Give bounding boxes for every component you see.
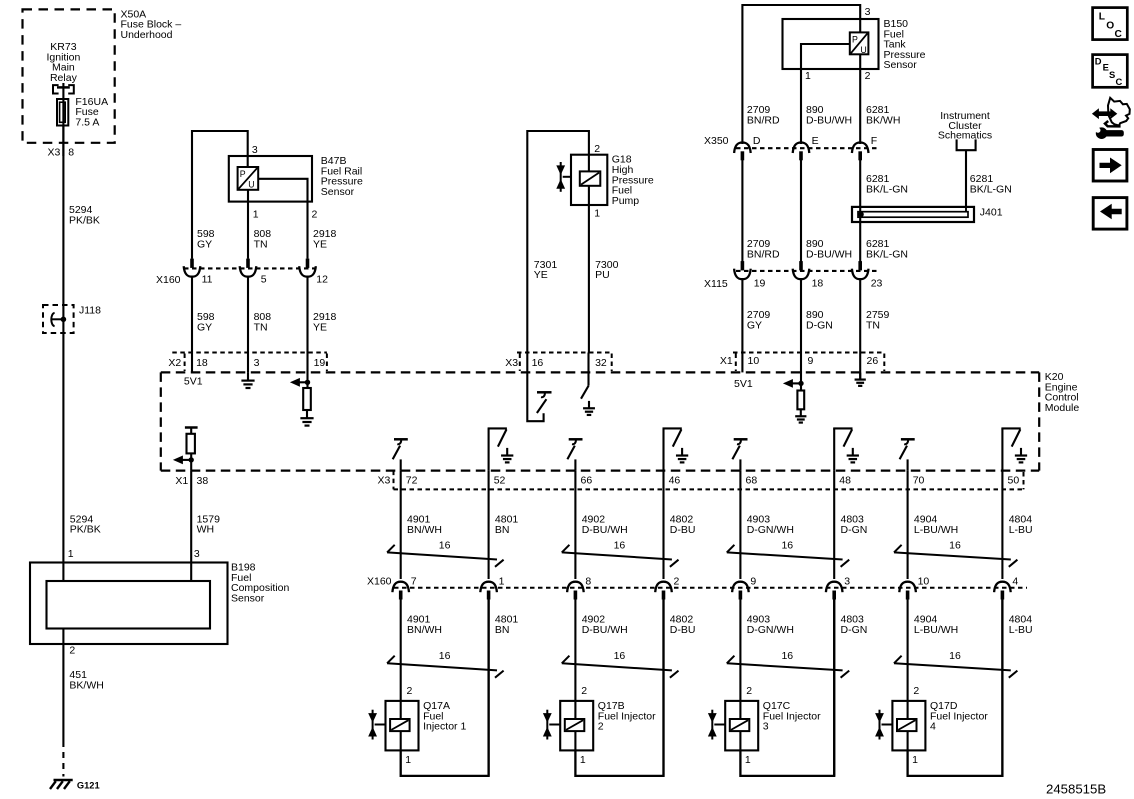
wire 598 GY lower <box>191 277 193 353</box>
svg-text:D-GN/WH: D-GN/WH <box>747 524 794 536</box>
signal arrow X1-9 <box>783 379 804 388</box>
svg-text:1: 1 <box>805 70 811 82</box>
wire 4804 L-BU upper <box>1001 471 1003 579</box>
svg-text:19: 19 <box>314 357 326 369</box>
connector X160 pin 11 terminal <box>184 259 201 277</box>
svg-text:16: 16 <box>614 540 626 552</box>
wire 4801 BN lower <box>488 599 490 776</box>
svg-text:X1: X1 <box>175 475 188 487</box>
svg-text:72: 72 <box>406 475 418 487</box>
injector Q17C wire through box <box>739 701 741 751</box>
splice J118 <box>43 305 74 333</box>
connector X350 dashed line <box>736 147 877 149</box>
svg-text:23: 23 <box>871 278 883 290</box>
svg-text:PK/BK: PK/BK <box>70 524 101 536</box>
ground ECM X1-9 resistor <box>795 409 806 422</box>
wire injector Q17A low side loop <box>401 599 489 776</box>
svg-text:19: 19 <box>754 278 766 290</box>
resistor ECM X2-19 <box>303 388 311 410</box>
svg-text:12: 12 <box>316 273 328 285</box>
svg-text:Fuel Injector: Fuel Injector <box>598 710 656 722</box>
pump G18 fuel spray symbol <box>556 162 571 192</box>
injector Q17A solenoid element <box>390 719 410 731</box>
wire X1-9 stub <box>800 353 802 391</box>
svg-text:TN: TN <box>254 238 268 250</box>
svg-text:U: U <box>248 180 254 190</box>
svg-text:2: 2 <box>598 721 604 733</box>
twisted pair symbol lower 4901/4801 <box>387 656 504 678</box>
wire 4901 BN/WH lower <box>400 599 402 701</box>
svg-text:Sensor: Sensor <box>321 186 355 198</box>
wire 890 D-BU/WH middle <box>800 160 802 263</box>
injector Q17B box <box>560 701 593 751</box>
wire 4903 D-GN/WH upper <box>739 471 741 579</box>
wire ECM driver to pin 68 <box>739 459 741 470</box>
svg-text:3: 3 <box>194 548 200 560</box>
svg-text:X3: X3 <box>505 357 518 369</box>
splice pack J401 <box>852 207 974 222</box>
svg-text:G121: G121 <box>77 780 100 790</box>
svg-text:D: D <box>753 135 761 147</box>
wire instrument cluster to J401 <box>965 150 967 207</box>
svg-text:BN/RD: BN/RD <box>747 114 780 126</box>
connector X160 injector row dashed line <box>394 587 1027 589</box>
wire 4804 L-BU lower <box>1001 599 1003 776</box>
svg-text:O: O <box>1106 20 1114 31</box>
svg-text:66: 66 <box>581 475 593 487</box>
connector X160 pin 3 terminal <box>826 582 843 600</box>
connector X3 pump box <box>517 353 612 372</box>
connector X160 pin 2 terminal <box>655 582 672 600</box>
svg-text:4: 4 <box>930 721 936 733</box>
icon DESC button <box>1093 55 1128 88</box>
svg-text:D-BU/WH: D-BU/WH <box>806 114 852 126</box>
svg-text:7.5 A: 7.5 A <box>75 117 99 129</box>
svg-text:2: 2 <box>581 685 587 697</box>
svg-text:P: P <box>852 35 858 45</box>
wire 5294 PK/BK lower segment <box>62 333 64 563</box>
switch blade X3-32 <box>581 386 589 399</box>
svg-text:10: 10 <box>918 576 930 588</box>
svg-text:16: 16 <box>439 540 451 552</box>
svg-text:16: 16 <box>949 540 961 552</box>
svg-text:BN: BN <box>495 624 510 636</box>
svg-text:1: 1 <box>253 209 259 221</box>
wire X1-38 internal <box>190 453 192 470</box>
icon next arrow button <box>1093 150 1127 182</box>
svg-text:7: 7 <box>411 576 417 588</box>
connector X115 dashed line <box>736 270 877 272</box>
svg-text:5V1: 5V1 <box>734 378 753 390</box>
svg-text:X160: X160 <box>156 274 181 286</box>
wire 4802 D-BU upper <box>662 471 664 579</box>
sensor B150 Fuel Tank Pressure Sensor box <box>783 19 879 69</box>
svg-text:2: 2 <box>312 209 318 221</box>
fuse block X50A dashed outline <box>23 9 115 142</box>
svg-text:Sensor: Sensor <box>884 59 918 71</box>
svg-text:BN/RD: BN/RD <box>747 248 780 260</box>
connector X2 box <box>172 353 327 372</box>
ground ECM X2-3 <box>241 372 254 388</box>
svg-text:5: 5 <box>261 273 267 285</box>
svg-text:X3: X3 <box>378 475 391 487</box>
svg-text:3: 3 <box>844 576 850 588</box>
svg-text:1: 1 <box>405 754 411 766</box>
injector Q17A box <box>386 701 419 751</box>
resistor ECM X1-9 <box>797 391 804 410</box>
svg-text:BK/L-GN: BK/L-GN <box>866 248 908 260</box>
sensor B47B Fuel Rail Pressure Sensor box <box>229 156 312 202</box>
svg-text:TN: TN <box>866 319 880 331</box>
injector Q17A fuel spray symbol <box>368 710 385 740</box>
wire 5294 PK/BK upper segment <box>62 156 64 333</box>
svg-text:PK/BK: PK/BK <box>69 214 100 226</box>
wire 808 TN lower <box>247 277 249 353</box>
svg-text:3: 3 <box>252 144 258 156</box>
svg-text:4: 4 <box>1012 576 1018 588</box>
wire ECM driver to pin 72 <box>400 459 402 470</box>
connector X160 pin 5 terminal <box>240 259 257 277</box>
wire B47B pin1 <box>247 190 249 259</box>
svg-text:L: L <box>1099 11 1105 22</box>
switch ECM injector return 50 with ground <box>1001 428 1027 470</box>
svg-text:Injector 1: Injector 1 <box>423 721 466 733</box>
svg-text:D-GN: D-GN <box>841 524 868 536</box>
fuse F16UA <box>57 99 68 126</box>
wire 4901 BN/WH upper <box>400 471 402 579</box>
twisted pair symbol lower 4903/4803 <box>727 656 849 678</box>
ground ECM X2-19 resistor <box>300 410 313 426</box>
sensor B198 Fuel Composition Sensor box <box>30 563 228 645</box>
svg-text:X3: X3 <box>48 146 61 158</box>
svg-text:38: 38 <box>197 475 209 487</box>
svg-text:Relay: Relay <box>50 72 78 84</box>
svg-text:D-GN: D-GN <box>841 624 868 636</box>
svg-text:D-GN: D-GN <box>806 319 833 331</box>
icon LOC button <box>1093 8 1128 40</box>
svg-text:32: 32 <box>595 357 607 369</box>
sensor B47B P/U element <box>238 167 259 190</box>
twisted pair symbol lower 4902/4802 <box>562 656 679 678</box>
svg-text:Module: Module <box>1045 402 1080 414</box>
svg-text:70: 70 <box>913 475 925 487</box>
svg-text:Fuel Injector: Fuel Injector <box>763 710 821 722</box>
svg-text:D-GN/WH: D-GN/WH <box>747 624 794 636</box>
icon back arrow button <box>1093 198 1127 230</box>
svg-text:E: E <box>1103 62 1109 73</box>
injector Q17D wire through box <box>907 701 909 751</box>
icon hand with double arrow and wrench <box>1092 98 1130 139</box>
svg-text:3: 3 <box>254 357 260 369</box>
svg-text:16: 16 <box>439 650 451 662</box>
connector X3 injector row dashed line <box>394 471 1024 490</box>
connector X115 pin 18 terminal <box>793 261 810 279</box>
wire 4904 L-BU/WH upper <box>907 471 909 579</box>
svg-text:YE: YE <box>313 238 327 250</box>
svg-text:L-BU/WH: L-BU/WH <box>914 524 958 536</box>
switch ECM injector driver 72 <box>393 439 408 459</box>
connector X1 box <box>733 353 884 372</box>
injector Q17A wire through box <box>400 701 402 751</box>
wire relay to fuse <box>62 87 64 156</box>
svg-text:2458515B: 2458515B <box>1046 782 1106 797</box>
svg-text:YE: YE <box>534 269 548 281</box>
svg-text:D-BU: D-BU <box>670 624 696 636</box>
wire B150 pin3 loop <box>742 5 860 144</box>
connector X160 pin 4 terminal <box>994 582 1011 600</box>
svg-text:3: 3 <box>763 721 769 733</box>
switch ECM injector return 52 with ground <box>488 428 514 470</box>
connector X350 pin D terminal <box>734 143 751 161</box>
twisted pair symbol upper 4902/4802 <box>562 545 679 567</box>
svg-text:2: 2 <box>746 685 752 697</box>
pump G18 solenoid element <box>580 171 601 185</box>
injector Q17C fuel spray symbol <box>708 710 725 740</box>
svg-text:16: 16 <box>781 540 793 552</box>
wire 2918 YE lower <box>306 277 308 353</box>
connector X160 pin 8 terminal <box>567 582 584 600</box>
wire injector Q17B low side loop <box>575 599 663 776</box>
connector X115 pin 19 terminal <box>734 261 751 279</box>
wire 4801 BN upper <box>488 471 490 579</box>
connector X1 pin 38 labels <box>175 475 208 487</box>
connector X160 pin 1 terminal <box>480 582 497 600</box>
wire X1-10 stub <box>741 353 743 373</box>
svg-text:1: 1 <box>68 548 74 560</box>
svg-text:5V1: 5V1 <box>184 376 203 388</box>
svg-text:BN/WH: BN/WH <box>407 624 442 636</box>
svg-text:BN/WH: BN/WH <box>407 524 442 536</box>
sensor B198 pin1 internal wire <box>62 563 64 582</box>
svg-text:10: 10 <box>748 355 760 367</box>
svg-text:GY: GY <box>747 319 762 331</box>
svg-text:11: 11 <box>202 273 213 285</box>
resistor ECM X1-38 with supply bar <box>185 428 198 454</box>
injector Q17D box <box>892 701 925 751</box>
wire X3-32 stub <box>587 353 589 386</box>
wire G18 pin1 / 7300 PU <box>588 205 590 353</box>
twisted pair symbol upper 4901/4801 <box>387 545 504 567</box>
switch ECM fuel pump driver <box>537 392 552 413</box>
connector X3 pin 8 labels <box>48 146 75 158</box>
injector Q17C solenoid element <box>730 719 750 731</box>
svg-text:Pump: Pump <box>612 195 640 207</box>
wire X1-26 stub <box>859 353 861 380</box>
connector X160 pin 9 terminal <box>732 582 749 600</box>
svg-text:WH: WH <box>197 524 215 536</box>
svg-text:L-BU: L-BU <box>1009 624 1033 636</box>
svg-text:BK/WH: BK/WH <box>69 679 103 691</box>
svg-text:F: F <box>871 135 877 147</box>
svg-text:18: 18 <box>196 357 208 369</box>
svg-text:16: 16 <box>781 650 793 662</box>
wire 4902 D-BU/WH upper <box>574 471 576 579</box>
svg-text:BN: BN <box>495 524 510 536</box>
svg-text:52: 52 <box>494 475 506 487</box>
svg-text:Underhood: Underhood <box>121 29 173 41</box>
switch ECM injector driver 66 <box>567 439 582 459</box>
twisted pair symbol lower 4904/4804 <box>894 656 1017 678</box>
svg-text:YE: YE <box>313 321 327 333</box>
svg-text:3: 3 <box>865 6 871 18</box>
wire B47B pin2 <box>258 179 307 259</box>
svg-text:C: C <box>1116 76 1123 87</box>
svg-text:PU: PU <box>595 269 610 281</box>
svg-text:68: 68 <box>746 475 758 487</box>
svg-text:1: 1 <box>594 208 600 220</box>
svg-text:D-BU/WH: D-BU/WH <box>582 524 628 536</box>
svg-text:L-BU: L-BU <box>1009 524 1033 536</box>
switch ECM injector return 48 with ground <box>833 428 859 470</box>
svg-text:D: D <box>1095 55 1102 66</box>
wire 2709 BN/RD middle <box>741 160 743 263</box>
svg-text:2: 2 <box>69 645 75 657</box>
wire 4902 D-BU/WH lower <box>574 599 576 701</box>
connector X160 row1 dashed line <box>184 267 316 269</box>
svg-text:2: 2 <box>674 576 680 588</box>
pump G18 High Pressure Fuel Pump box <box>571 155 607 205</box>
wire 451 BK/WH <box>62 629 64 777</box>
wire ECM driver to pin 70 <box>907 459 909 470</box>
svg-text:P: P <box>240 169 246 179</box>
signal arrow X2-19 <box>290 378 310 387</box>
svg-text:BK/L-GN: BK/L-GN <box>970 183 1012 195</box>
svg-text:8: 8 <box>585 576 591 588</box>
switch ECM injector return 46 with ground <box>663 428 689 470</box>
svg-text:BK/WH: BK/WH <box>866 114 900 126</box>
svg-text:2: 2 <box>913 685 919 697</box>
injector Q17C box <box>725 701 758 751</box>
injector Q17B wire through box <box>574 701 576 751</box>
svg-text:L-BU/WH: L-BU/WH <box>914 624 958 636</box>
connector X115 pin 23 terminal <box>852 261 869 279</box>
svg-text:X2: X2 <box>168 357 181 369</box>
wire 4903 D-GN/WH lower <box>739 599 741 701</box>
svg-text:D-BU/WH: D-BU/WH <box>806 248 852 260</box>
svg-text:1: 1 <box>745 754 751 766</box>
module K20 ECM dashed boundary <box>161 372 1039 470</box>
svg-text:1: 1 <box>580 754 586 766</box>
svg-text:2: 2 <box>407 685 413 697</box>
injector Q17B solenoid element <box>565 719 585 731</box>
injector Q17B fuel spray symbol <box>543 710 560 740</box>
instrument cluster connector bracket <box>957 139 976 150</box>
svg-text:9: 9 <box>750 576 756 588</box>
svg-text:J401: J401 <box>980 207 1003 219</box>
svg-text:1: 1 <box>499 576 505 588</box>
ground ECM X1-26 <box>855 373 866 386</box>
wire 4803 D-GN upper <box>833 471 835 579</box>
svg-text:D-BU/WH: D-BU/WH <box>582 624 628 636</box>
wire X2-3 stub <box>247 353 249 373</box>
wire ECM driver to pin 66 <box>574 459 576 470</box>
svg-text:1: 1 <box>912 754 918 766</box>
svg-text:2: 2 <box>594 143 600 155</box>
svg-text:Sensor: Sensor <box>231 592 265 604</box>
wire B47B pin3 loop <box>192 131 248 259</box>
svg-text:16: 16 <box>532 357 544 369</box>
wire 6281 BK/L-GN to J401 <box>859 160 861 263</box>
svg-text:U: U <box>860 45 866 55</box>
wire 4803 D-GN lower <box>833 599 835 776</box>
svg-text:Fuel Injector: Fuel Injector <box>930 710 988 722</box>
svg-text:48: 48 <box>839 475 851 487</box>
svg-text:E: E <box>812 135 819 147</box>
svg-text:D-BU: D-BU <box>670 524 696 536</box>
svg-text:S: S <box>1109 69 1115 80</box>
connector X160 pin 7 terminal <box>392 582 409 600</box>
svg-text:C: C <box>1115 29 1123 40</box>
ground G121 <box>50 780 73 789</box>
connector X350 pin E terminal <box>793 143 810 161</box>
connector X350 pin F terminal <box>852 143 869 161</box>
svg-text:2: 2 <box>865 70 871 82</box>
svg-text:X160: X160 <box>367 576 392 588</box>
pump G18 internal wire <box>588 155 590 205</box>
svg-text:BK/L-GN: BK/L-GN <box>866 183 908 195</box>
svg-text:X115: X115 <box>704 278 728 290</box>
wire B150 pin1 <box>801 44 850 144</box>
wire 890 D-GN <box>800 279 802 352</box>
svg-text:J118: J118 <box>79 304 101 316</box>
svg-text:8: 8 <box>68 146 74 158</box>
svg-text:18: 18 <box>812 278 824 290</box>
twisted pair symbol upper 4904/4804 <box>894 545 1017 567</box>
wire B150 pin2 <box>859 54 861 144</box>
svg-text:16: 16 <box>614 650 626 662</box>
svg-text:X350: X350 <box>704 135 729 147</box>
twisted pair symbol upper 4903/4803 <box>727 545 849 567</box>
svg-text:16: 16 <box>949 650 961 662</box>
svg-text:TN: TN <box>254 321 268 333</box>
switch ECM injector driver 68 <box>732 439 747 459</box>
wire fuse to X3-8 <box>62 126 64 157</box>
ground ECM X3-32 <box>583 401 595 415</box>
wire G18 pin2 loop <box>527 131 589 353</box>
wire injector Q17D low side loop <box>908 599 1003 776</box>
wire X2-18 stub <box>191 353 193 373</box>
sensor B198 pin3 internal wire <box>190 563 192 582</box>
signal arrow X1-38 <box>173 456 194 465</box>
connector X160 pin 10 terminal <box>899 582 916 600</box>
injector Q17D solenoid element <box>897 719 917 731</box>
svg-text:Schematics: Schematics <box>938 130 992 142</box>
svg-text:50: 50 <box>1008 475 1020 487</box>
connector X160 pin 12 terminal <box>299 259 316 277</box>
svg-text:GY: GY <box>197 321 212 333</box>
wire 1579 WH <box>190 471 192 563</box>
sensor B150 P/U element <box>850 32 869 55</box>
svg-text:X1: X1 <box>720 355 733 367</box>
wire 4802 D-BU lower <box>662 599 664 776</box>
relay KR73 contact <box>53 83 74 94</box>
wire injector Q17C low side loop <box>740 599 834 776</box>
svg-text:46: 46 <box>669 475 681 487</box>
wire X2-19 stub <box>306 353 308 389</box>
wire 2759 TN <box>859 279 861 352</box>
wire 2709 GY <box>741 279 743 352</box>
svg-text:26: 26 <box>867 355 879 367</box>
wire 4904 L-BU/WH lower <box>907 599 909 701</box>
switch ECM injector driver 70 <box>900 439 915 459</box>
injector Q17D fuel spray symbol <box>875 710 892 740</box>
svg-text:GY: GY <box>197 238 212 250</box>
wire X3-16 ECM internal <box>527 353 543 422</box>
svg-text:9: 9 <box>808 355 814 367</box>
